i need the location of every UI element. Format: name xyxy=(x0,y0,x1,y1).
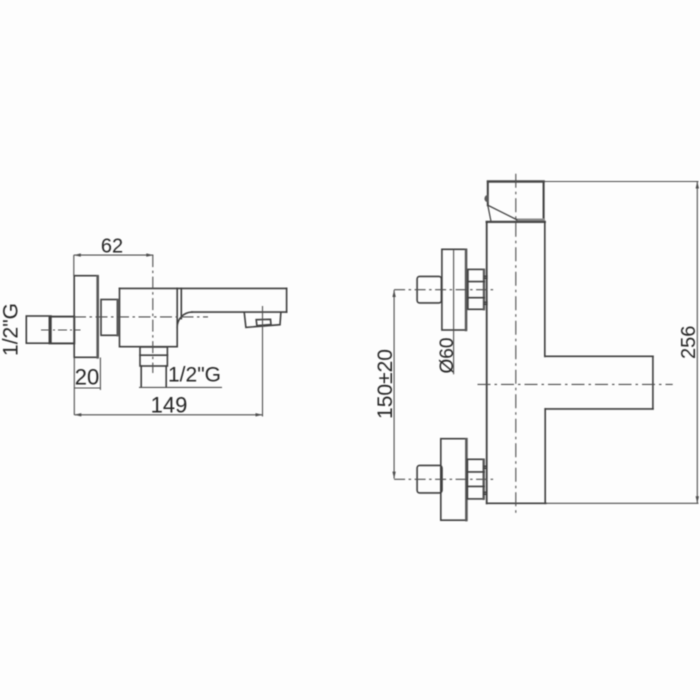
dim 62 arrows xyxy=(74,253,154,256)
lower nut facet lines xyxy=(467,472,484,487)
dim 256 top extension xyxy=(544,181,698,183)
lower connection centerline xyxy=(394,478,494,480)
connector shadow edge xyxy=(116,300,118,335)
connector block xyxy=(101,300,118,336)
spout top edge xyxy=(120,287,287,289)
handle bottom thick segment xyxy=(517,219,544,222)
svg-text:1/2"G: 1/2"G xyxy=(168,364,221,387)
spout tip edge xyxy=(286,288,288,312)
lower eccentric pipe xyxy=(417,465,442,493)
spout arm bottom xyxy=(545,408,653,410)
upper nut facet lines xyxy=(468,282,484,298)
dim 149 right extension xyxy=(262,306,264,417)
handle small left line xyxy=(488,206,491,221)
dim 256 bottom extension xyxy=(546,502,699,504)
body right edge xyxy=(176,288,178,346)
arm horizontal centerline xyxy=(478,383,673,385)
upper nut shadow edge xyxy=(483,270,485,309)
centerlines / dimension lines for right view xyxy=(392,174,699,514)
centerlines / dimension lines for left view xyxy=(41,253,263,416)
cartridge vertical centerline xyxy=(152,255,154,373)
main centerline xyxy=(74,316,208,318)
phi60 leader line xyxy=(453,249,455,374)
spout arm right edge xyxy=(652,356,654,409)
aerator housing xyxy=(244,313,280,327)
body right edge lower xyxy=(544,409,546,503)
half inch leader line xyxy=(139,386,222,388)
body left edge xyxy=(486,222,488,503)
handle top thick edge xyxy=(488,180,544,182)
wall plate shadow edge xyxy=(96,277,99,358)
body top edge xyxy=(487,221,545,223)
upper flange shadow edge xyxy=(465,250,467,330)
handle knob bump xyxy=(484,195,488,203)
dim 62 left extension xyxy=(73,255,75,276)
svg-text:150±20: 150±20 xyxy=(374,349,397,419)
lower nut xyxy=(467,459,484,499)
dim 256 line xyxy=(696,182,698,504)
outlet block under body xyxy=(140,347,167,366)
pipe centerline xyxy=(41,329,81,331)
outlet thread left xyxy=(140,366,142,387)
inlet pipe inner section xyxy=(50,317,75,344)
inlet pipe outer section xyxy=(26,316,51,343)
outlet thread right xyxy=(165,366,167,387)
upper nut xyxy=(468,269,484,309)
spout underside xyxy=(192,311,287,313)
body vertical centerline xyxy=(515,174,517,514)
dim 62 line xyxy=(74,254,154,256)
upper connection centerline xyxy=(394,289,494,291)
aerator insert xyxy=(256,319,271,325)
upper flange xyxy=(442,249,467,330)
body right edge upper xyxy=(544,222,546,356)
svg-text:1/2"G: 1/2"G xyxy=(0,303,23,356)
dim 20 line xyxy=(74,387,100,389)
dim 20 right extension xyxy=(99,358,101,391)
dim 150 line xyxy=(393,290,395,479)
dim 149 arrows xyxy=(74,413,262,416)
spout inner edge xyxy=(180,288,182,318)
dim 149 line xyxy=(74,414,262,416)
outlet block divider xyxy=(140,354,167,356)
upper eccentric pipe xyxy=(417,276,441,303)
lower thread stubs xyxy=(484,466,487,494)
svg-text:62: 62 xyxy=(101,236,123,258)
handle outline xyxy=(488,182,544,220)
spout arm top xyxy=(545,355,653,357)
svg-text:Ø60: Ø60 xyxy=(437,338,458,374)
handle lever diagonal xyxy=(488,205,517,220)
lower nut shadow edge xyxy=(483,460,485,499)
svg-text:149: 149 xyxy=(151,393,188,418)
wall plate xyxy=(74,276,98,358)
spout fillet curve xyxy=(177,312,192,327)
mixer body (side) xyxy=(120,288,178,346)
dim 150 arrows xyxy=(392,290,395,479)
upper thread stubs xyxy=(484,276,487,304)
lower flange shadow edge xyxy=(465,440,467,521)
dim 20 left extension xyxy=(73,358,75,416)
svg-text:20: 20 xyxy=(75,365,99,390)
lower flange xyxy=(441,439,467,521)
dim 256 arrows xyxy=(696,182,699,504)
svg-text:256: 256 xyxy=(678,326,700,359)
body bottom edge xyxy=(487,502,546,504)
